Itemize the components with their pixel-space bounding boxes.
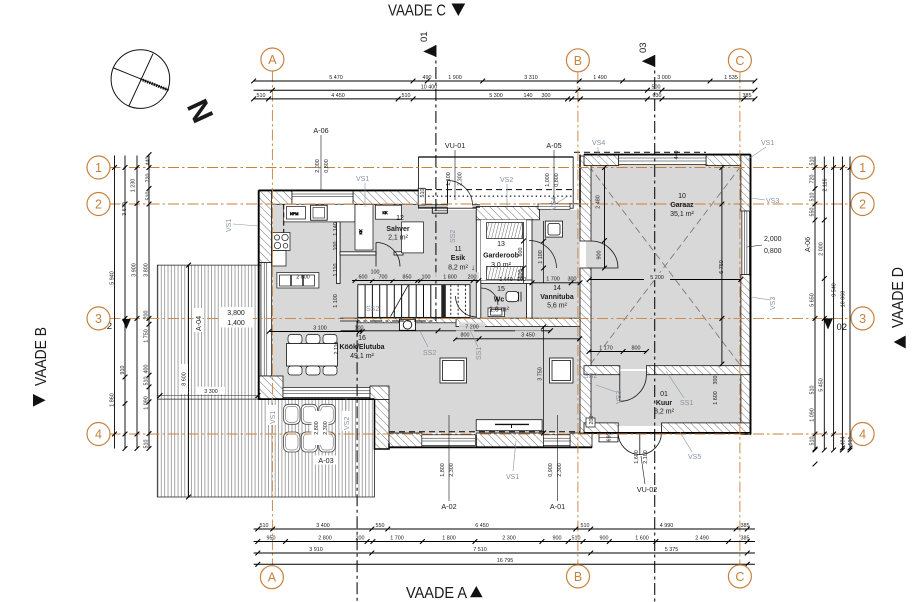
- svg-text:16: 16: [358, 335, 366, 342]
- svg-text:2 490: 2 490: [695, 535, 709, 541]
- svg-text:4 450: 4 450: [331, 93, 345, 99]
- svg-text:1 800: 1 800: [442, 535, 456, 541]
- dim col right group: [813, 157, 853, 467]
- svg-text:5 300: 5 300: [489, 93, 503, 99]
- label A-06: [313, 126, 328, 190]
- canopy dashed line: [426, 189, 573, 191]
- svg-text:SS2: SS2: [584, 373, 597, 380]
- svg-text:↓: ↓: [471, 263, 475, 272]
- stairs floor drain circle: [400, 319, 416, 330]
- window garage right: [742, 211, 750, 275]
- svg-text:400: 400: [144, 365, 150, 374]
- svg-text:385: 385: [741, 535, 750, 541]
- svg-text:0,800: 0,800: [764, 248, 782, 255]
- label garderoob: [483, 241, 519, 269]
- dining chairs top: [288, 335, 337, 344]
- label VU-01: [445, 141, 465, 200]
- dim texts right rotated: [810, 157, 854, 446]
- svg-text:2 000: 2 000: [819, 242, 825, 256]
- svg-text:2,300: 2,300: [449, 463, 455, 477]
- svg-text:49,1 m²: 49,1 m²: [350, 353, 374, 360]
- svg-text:35,1 m²: 35,1 m²: [670, 211, 694, 218]
- svg-text:VS2: VS2: [344, 417, 351, 430]
- label VU-02: [637, 456, 657, 494]
- svg-text:3,800: 3,800: [227, 310, 245, 317]
- svg-text:800: 800: [461, 333, 470, 339]
- svg-text:Vannituba: Vannituba: [540, 294, 574, 301]
- svg-text:1,000: 1,000: [545, 173, 551, 187]
- dim row top 1: [251, 79, 757, 84]
- svg-text:100: 100: [333, 242, 339, 251]
- svg-text:1 535: 1 535: [724, 75, 738, 81]
- svg-text:0,800: 0,800: [324, 159, 330, 173]
- bath washing machine: [545, 221, 562, 237]
- wall bottom-left corner: [259, 376, 283, 400]
- svg-text:440: 440: [674, 151, 680, 160]
- svg-text:VS1: VS1: [761, 140, 774, 147]
- svg-text:VS2: VS2: [500, 177, 513, 184]
- label kuur: [654, 391, 675, 416]
- sahver door arc: [376, 243, 400, 267]
- dim 800 3450 line: [453, 336, 582, 341]
- svg-text:Kuur: Kuur: [656, 400, 673, 407]
- svg-text:VU-01: VU-01: [445, 141, 465, 150]
- wall wc bottom hatched: [456, 318, 580, 326]
- deck terrace: [157, 265, 374, 497]
- svg-text:910: 910: [120, 366, 126, 375]
- svg-text:3 310: 3 310: [524, 75, 538, 81]
- label A-01: [550, 415, 565, 511]
- stairs lower hatched band: [358, 318, 456, 323]
- dim garage 5200: [587, 277, 743, 282]
- svg-text:300: 300: [542, 93, 551, 99]
- svg-text:B: B: [574, 54, 582, 68]
- bubble C top: [728, 49, 751, 72]
- wall top-left: [259, 190, 419, 204]
- svg-text:3 400: 3 400: [316, 523, 330, 529]
- window bottom living: [422, 435, 476, 446]
- dim row top 3: [251, 97, 757, 102]
- svg-text:B: B: [574, 570, 582, 584]
- svg-text:510: 510: [810, 386, 816, 395]
- dim 3100 line: [267, 329, 365, 334]
- svg-text:3 910: 3 910: [309, 547, 323, 553]
- porch dotted line: [411, 195, 573, 197]
- svg-text:10 400: 10 400: [421, 85, 438, 91]
- dim deck 8600 vertical: [186, 263, 191, 500]
- svg-text:850: 850: [403, 274, 412, 280]
- svg-text:2,300: 2,300: [458, 172, 464, 186]
- svg-text:8 600: 8 600: [182, 372, 188, 386]
- label wc: [489, 286, 510, 314]
- svg-text:8,2 m²: 8,2 m²: [448, 265, 469, 272]
- svg-text:900: 900: [553, 535, 562, 541]
- axis line A vertical: [110, 71, 852, 565]
- dim 7200 line: [341, 328, 553, 333]
- wall garage bottom: [584, 366, 751, 375]
- garderoob floor: [481, 220, 527, 280]
- dim row bottom 2: [254, 539, 755, 544]
- section marker 01 flag: [419, 31, 436, 56]
- svg-text:1 750: 1 750: [144, 329, 150, 343]
- svg-text:5 940: 5 940: [110, 271, 116, 285]
- fridge NPM: [287, 207, 306, 220]
- bubble 3 left: [87, 307, 110, 330]
- svg-text:1 800: 1 800: [443, 274, 457, 280]
- room floor main house: [269, 203, 580, 434]
- double door kuur arcs VU-02: [618, 433, 661, 455]
- svg-text:100: 100: [517, 277, 526, 283]
- svg-text:3 750: 3 750: [538, 367, 544, 381]
- svg-text:510: 510: [146, 192, 152, 201]
- dim row bottom 1: [254, 527, 755, 532]
- label VS5 kuur: [680, 432, 701, 461]
- svg-text:03: 03: [638, 42, 649, 53]
- garderoob shelf bottom: [487, 266, 523, 279]
- svg-text:5 450: 5 450: [819, 378, 825, 392]
- svg-text:C: C: [735, 570, 744, 584]
- svg-text:1 170: 1 170: [599, 345, 613, 351]
- svg-text:A-04: A-04: [194, 316, 203, 331]
- stairs hidden treads dashed: [451, 285, 466, 318]
- dim texts left rotated: [110, 157, 152, 449]
- dim door rotated texts: [315, 159, 649, 477]
- wall house right / garage left: [580, 156, 591, 433]
- counter left: [272, 251, 286, 267]
- door garage-kuur arc: [620, 375, 647, 402]
- svg-text:1 090: 1 090: [144, 396, 150, 410]
- label VS3 right: [751, 198, 779, 205]
- svg-text:510: 510: [260, 523, 269, 529]
- svg-text:A-03: A-03: [318, 456, 333, 465]
- garderoob inner dims: [521, 222, 526, 283]
- sahver closet KK top: [375, 205, 401, 219]
- garage cross bracing dashed: [589, 166, 741, 366]
- svg-text:2,1 m²: 2,1 m²: [388, 235, 409, 242]
- svg-text:SS2: SS2: [366, 306, 379, 313]
- svg-text:5 200: 5 200: [650, 275, 664, 281]
- svg-text:VS1: VS1: [506, 474, 519, 481]
- svg-text:3,0 m²: 3,0 m²: [491, 262, 512, 269]
- svg-text:13: 13: [497, 241, 505, 248]
- bubble 1 left: [87, 156, 110, 179]
- bubble B bottom: [567, 565, 590, 588]
- svg-text:Esik: Esik: [451, 255, 466, 262]
- living sideboard: [476, 420, 542, 431]
- svg-text:1 490: 1 490: [593, 75, 607, 81]
- title vaade D: [890, 267, 907, 349]
- sahver closet KK tall: [355, 205, 373, 251]
- kitchen counter: [284, 204, 355, 222]
- svg-text:490: 490: [423, 75, 432, 81]
- svg-text:510: 510: [420, 189, 426, 198]
- svg-text:1,6 m²: 1,6 m²: [489, 307, 510, 314]
- dining table: [287, 344, 338, 367]
- bubble 2 right: [851, 193, 874, 216]
- label A-05: [546, 141, 561, 203]
- svg-text:4 990: 4 990: [660, 523, 674, 529]
- svg-text:SS1: SS1: [476, 347, 483, 360]
- sahver shelf right: [402, 222, 424, 253]
- svg-text:16 795: 16 795: [497, 558, 514, 564]
- label VS1 deck rot: [268, 398, 277, 425]
- svg-text:1 700: 1 700: [546, 276, 560, 282]
- label VS4 top: [592, 140, 605, 158]
- svg-text:7 510: 7 510: [473, 547, 487, 553]
- svg-text:VS1: VS1: [356, 176, 369, 183]
- dim island 2800: [296, 275, 310, 281]
- svg-text:630: 630: [653, 93, 662, 99]
- svg-text:510: 510: [581, 523, 590, 529]
- svg-text:900: 900: [597, 251, 603, 260]
- label 12 sahver num: [396, 215, 404, 222]
- svg-text:SS2: SS2: [450, 230, 457, 243]
- svg-text:1 900: 1 900: [448, 75, 462, 81]
- window bottom-left facade: [283, 388, 370, 398]
- dim deck 3300: [158, 393, 261, 398]
- svg-text:3 000: 3 000: [657, 75, 671, 81]
- label A-02: [441, 415, 456, 511]
- svg-text:5,6 m²: 5,6 m²: [547, 303, 568, 310]
- garderoob shelf top: [487, 223, 523, 239]
- svg-text:0,800: 0,800: [554, 173, 560, 187]
- bubble B top: [566, 49, 589, 72]
- svg-text:3 100: 3 100: [313, 325, 327, 331]
- svg-text:A-06: A-06: [803, 237, 812, 252]
- svg-text:2,000: 2,000: [315, 159, 321, 173]
- svg-text:VAADE D: VAADE D: [890, 267, 907, 328]
- wall sahver bottom: [340, 252, 403, 255]
- title vaade B: [33, 327, 50, 407]
- svg-text:1 600: 1 600: [713, 391, 719, 405]
- wall garderoob-bath: [527, 220, 533, 318]
- svg-text:A-05: A-05: [546, 141, 561, 150]
- svg-text:1: 1: [859, 161, 866, 175]
- living armchair square left: [440, 358, 467, 383]
- svg-text:7 200: 7 200: [465, 325, 479, 331]
- label VS2 deck rot: [342, 398, 351, 431]
- bath door arc: [529, 241, 557, 269]
- svg-text:510: 510: [402, 93, 411, 99]
- svg-text:01: 01: [419, 31, 430, 42]
- label SS1 rot living: [470, 330, 483, 360]
- svg-text:A-01: A-01: [550, 502, 565, 511]
- wall garderoob-wc: [481, 280, 532, 283]
- svg-text:510: 510: [144, 377, 150, 386]
- label köök/elutuba: [339, 335, 384, 360]
- title vaade A: [406, 585, 483, 602]
- window bottom bath: [543, 435, 570, 446]
- dim row bottom 4: [254, 562, 755, 567]
- svg-text:510: 510: [257, 93, 266, 99]
- svg-text:VS1: VS1: [226, 219, 233, 232]
- kuur exterior landing steps: [599, 433, 618, 442]
- stairs up diagonal: [391, 285, 409, 317]
- label garaaz: [670, 193, 694, 218]
- svg-text:484: 484: [841, 437, 847, 446]
- svg-text:VS1: VS1: [270, 411, 277, 424]
- svg-text:14: 14: [553, 285, 561, 292]
- door living-garage arc: [591, 241, 618, 268]
- bubble 2 left: [87, 193, 110, 216]
- svg-text:1 230: 1 230: [131, 179, 137, 193]
- svg-text:600: 600: [359, 274, 368, 280]
- bubble 3 right: [851, 307, 874, 330]
- kitchen sink: [311, 205, 328, 220]
- section line 01: [357, 45, 436, 602]
- compass: [111, 50, 170, 109]
- heavy exterior outlines: [259, 155, 751, 449]
- svg-text:C: C: [735, 54, 744, 68]
- wall stairs bottom edge: [340, 318, 456, 321]
- svg-text:Wc: Wc: [494, 297, 505, 304]
- corridor door arc: [456, 296, 477, 317]
- svg-text:2,100: 2,100: [643, 450, 649, 464]
- svg-text:VAADE C: VAADE C: [388, 3, 446, 20]
- svg-text:3: 3: [95, 312, 102, 326]
- porch slab: [411, 152, 706, 208]
- wall facade step: [370, 386, 389, 449]
- label VS1 left: [226, 219, 258, 232]
- bubble 4 right: [851, 423, 874, 446]
- room floor kuur: [586, 371, 744, 426]
- svg-text:2 800: 2 800: [318, 535, 332, 541]
- dim rotated interior: [0, 0, 1, 1]
- svg-text:510: 510: [810, 193, 816, 202]
- dim row bottom 3: [254, 551, 755, 556]
- svg-text:A-02: A-02: [441, 502, 456, 511]
- svg-text:10: 10: [678, 193, 686, 200]
- svg-text:1 700: 1 700: [390, 535, 404, 541]
- window bath top: [538, 204, 570, 210]
- svg-text:385: 385: [743, 93, 752, 99]
- wall kitchen-esik: [337, 222, 341, 284]
- wall garage top: [584, 155, 751, 166]
- svg-text:6 450: 6 450: [475, 523, 489, 529]
- dim stairs row: [352, 278, 481, 283]
- compass N letter: [180, 95, 219, 129]
- svg-text:200: 200: [356, 535, 365, 541]
- dim garage vertical 6750: [720, 165, 725, 366]
- svg-text:VAADE A: VAADE A: [406, 585, 467, 602]
- svg-text:SS1: SS1: [680, 400, 693, 407]
- svg-text:950: 950: [267, 535, 276, 541]
- wc sink: [488, 308, 505, 317]
- svg-text:12: 12: [396, 215, 404, 222]
- svg-text:2 480: 2 480: [596, 195, 602, 209]
- svg-text:1 860: 1 860: [110, 393, 116, 407]
- svg-text:01: 01: [660, 391, 668, 398]
- svg-text:1 440: 1 440: [499, 277, 513, 283]
- svg-text:KK: KK: [382, 211, 388, 215]
- svg-text:VAADE B: VAADE B: [33, 327, 50, 386]
- label sahver: [386, 226, 410, 242]
- svg-text:3 900: 3 900: [132, 263, 138, 277]
- wall esik-garderoob: [476, 210, 481, 319]
- svg-text:690: 690: [607, 433, 613, 442]
- section marker 02 right: [823, 318, 847, 333]
- entry exterior step: [432, 207, 447, 213]
- svg-text:1 600: 1 600: [635, 535, 649, 541]
- svg-text:1,400: 1,400: [227, 320, 245, 327]
- svg-text:VS3: VS3: [616, 391, 623, 404]
- label VS1 bottom: [506, 441, 519, 481]
- svg-text:Garderoob: Garderoob: [483, 253, 519, 260]
- svg-text:3 800: 3 800: [144, 263, 150, 277]
- bubble A top: [261, 48, 284, 71]
- svg-text:1: 1: [95, 161, 102, 175]
- svg-text:VS5: VS5: [688, 454, 701, 461]
- window left facade: [261, 263, 272, 376]
- svg-text:2 800: 2 800: [296, 275, 310, 281]
- svg-text:Köök/Elutuba: Köök/Elutuba: [339, 344, 384, 351]
- svg-text:2: 2: [95, 198, 102, 212]
- dim deck 3800 1400: [220, 307, 253, 328]
- room floor garage: [586, 162, 744, 369]
- svg-text:1,100: 1,100: [446, 172, 452, 186]
- svg-text:3 670: 3 670: [122, 202, 128, 216]
- svg-text:5 470: 5 470: [329, 75, 343, 81]
- wall kuur bottom: [584, 423, 751, 433]
- title vaade C: [388, 3, 465, 20]
- svg-text:2 300: 2 300: [502, 535, 516, 541]
- svg-text:510: 510: [572, 535, 581, 541]
- wall bottom right section: [389, 433, 592, 447]
- svg-text:VS3: VS3: [766, 198, 779, 205]
- svg-text:4: 4: [95, 428, 102, 442]
- dim garage right 2000 0800: [764, 236, 782, 255]
- svg-text:500: 500: [652, 85, 661, 91]
- svg-text:SS2: SS2: [423, 350, 436, 357]
- svg-text:720: 720: [146, 174, 152, 183]
- stairs: [358, 285, 470, 318]
- svg-text:02: 02: [837, 322, 848, 333]
- svg-text:KK: KK: [359, 229, 363, 235]
- svg-text:2: 2: [859, 198, 866, 212]
- svg-text:510: 510: [144, 440, 150, 449]
- stove: [272, 233, 290, 251]
- svg-text:4: 4: [859, 428, 866, 442]
- svg-text:510: 510: [810, 437, 816, 446]
- svg-text:5 650: 5 650: [810, 293, 816, 307]
- svg-text:2,800: 2,800: [314, 421, 320, 435]
- svg-text:140: 140: [524, 93, 533, 99]
- label A-04 rot: [194, 308, 204, 332]
- kitchen upper cabinet dashed line: [283, 204, 285, 266]
- wc door arc: [481, 288, 498, 305]
- svg-text:8,2 m²: 8,2 m²: [654, 409, 675, 416]
- label SS2 rot esik: [450, 230, 457, 243]
- dim col left group: [112, 152, 151, 451]
- label VS4 porch: [551, 196, 568, 210]
- svg-text:1 100: 1 100: [538, 250, 544, 264]
- window top-left: [292, 190, 353, 204]
- stairs landing wall: [441, 285, 446, 318]
- svg-text:VU-02: VU-02: [637, 485, 657, 494]
- label VS2 top: [500, 177, 513, 210]
- svg-text:550: 550: [376, 523, 385, 529]
- label esik: [448, 246, 475, 272]
- svg-text:200: 200: [144, 311, 150, 320]
- svg-text:2,300: 2,300: [323, 421, 329, 435]
- svg-text:11: 11: [454, 246, 461, 253]
- porch pilaster 510: [418, 188, 425, 205]
- label VS3 right rot: [751, 297, 777, 310]
- dining chairs bottom: [288, 366, 337, 375]
- svg-text:A: A: [268, 53, 277, 67]
- svg-text:300: 300: [568, 276, 577, 282]
- svg-text:1,600: 1,600: [634, 450, 640, 464]
